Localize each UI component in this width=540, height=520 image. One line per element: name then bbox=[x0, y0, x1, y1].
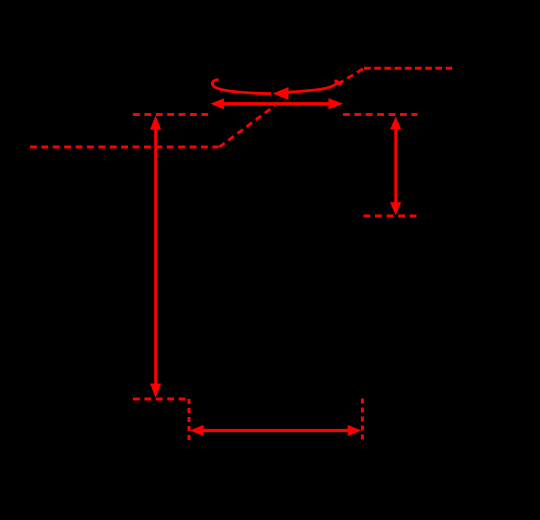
dashed level line: mid-right short bbox=[343, 113, 418, 116]
dashed level line: right lower short bbox=[364, 215, 418, 218]
dashed vertical: bottom right bbox=[361, 399, 364, 444]
dashed ramp: upper segment bbox=[338, 69, 365, 85]
vertical double arrow: right amplitude bbox=[390, 116, 401, 215]
dashed level line: mid-left short bbox=[133, 113, 209, 116]
dashed vertical: bottom left bbox=[188, 399, 191, 443]
dashed level line: bottom-left step bbox=[133, 398, 189, 401]
dashed level line: upper plateau bbox=[364, 67, 452, 70]
horizontal double arrow: bottom width bbox=[190, 425, 361, 436]
curved swash arrow over ramp bbox=[212, 80, 341, 101]
horizontal double arrow: ramp width bbox=[210, 98, 343, 109]
tall vertical double arrow: left amplitude bbox=[150, 115, 161, 397]
dashed ramp: lower segment bbox=[219, 106, 275, 148]
dashed level line: lower-left long level bbox=[30, 146, 219, 149]
